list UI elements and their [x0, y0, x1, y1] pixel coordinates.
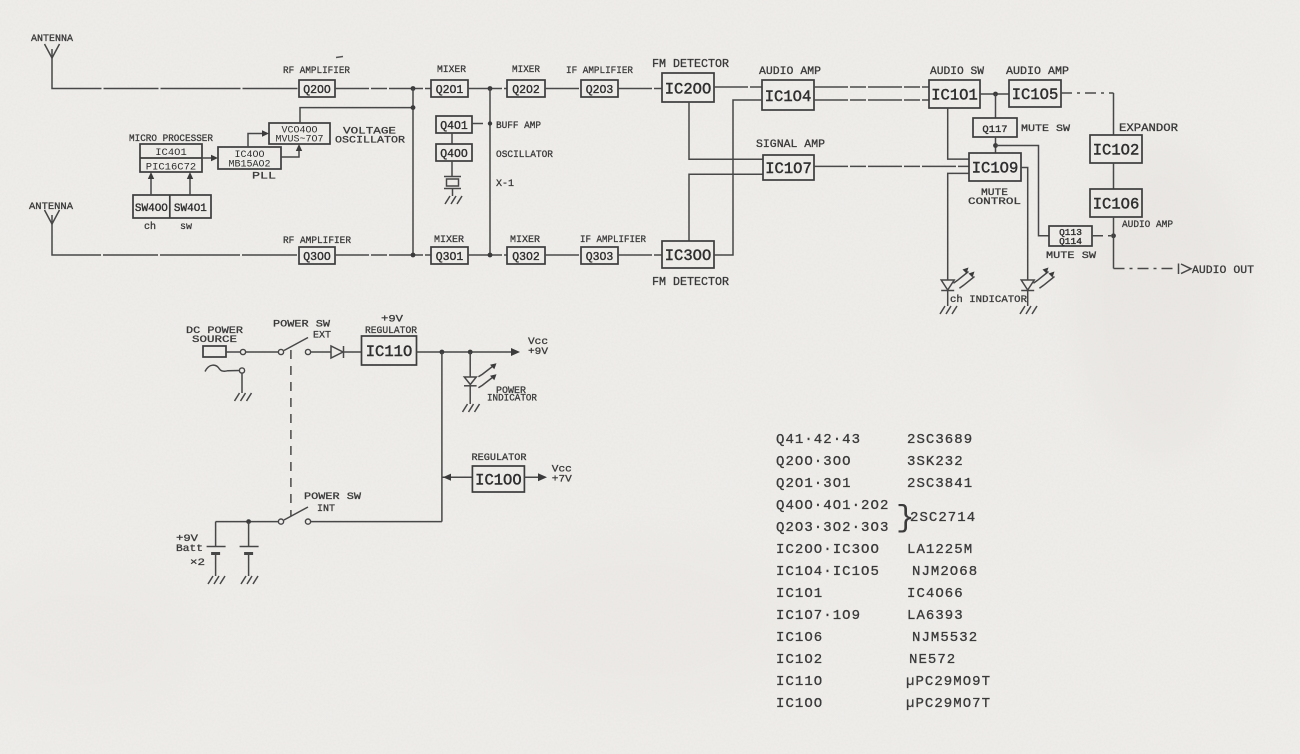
wire IC104 to IC101 upper: [814, 86, 929, 88]
svg-text:EXPANDOR: EXPANDOR: [1119, 123, 1178, 135]
wire Q401 to vertical B: [472, 123, 490, 125]
svg-text:LA1225M: LA1225M: [907, 542, 973, 558]
transistor Q202: [507, 80, 545, 97]
led power indicator: [464, 377, 477, 404]
ground battery 1: [208, 576, 225, 584]
svg-text:AUDIO SW: AUDIO SW: [930, 66, 984, 78]
wire IC101 to IC105: [980, 93, 1009, 95]
wire Q203 to IC200: [618, 88, 662, 90]
ic IC200: [662, 73, 714, 102]
wire SW401 to IC401: [189, 174, 191, 195]
power led arrows: [478, 365, 495, 388]
wire IC107 to IC109: [814, 165, 969, 167]
crystal X-1: [444, 177, 461, 197]
ground below crystal: [445, 196, 462, 204]
node buffer bottom: [488, 253, 493, 258]
wire Q113 to main vertical: [1092, 235, 1114, 237]
wire IC106 down to audio out: [1113, 217, 1115, 269]
ic IC106: [1090, 189, 1142, 217]
svg-text:ANTENNA: ANTENNA: [31, 33, 74, 45]
svg-text:RF AMPLIFIER: RF AMPLIFIER: [283, 65, 351, 77]
terminal circle: [240, 349, 245, 354]
wire VCO400 top to LO vertical: [300, 108, 413, 123]
led1 arrows: [953, 272, 974, 289]
wire plug to terminal: [226, 351, 240, 353]
svg-text:INT: INT: [317, 503, 335, 515]
svg-text:+9V: +9V: [528, 346, 549, 358]
svg-text:Q2O3·3O2·3O3: Q2O3·3O2·3O3: [776, 520, 889, 536]
ic IC101: [929, 80, 980, 108]
svg-text:AUDIO AMP: AUDIO AMP: [1122, 219, 1173, 231]
transistor Q401 buffer: [436, 116, 472, 133]
battery 2: [240, 522, 259, 576]
transistor Q303: [581, 247, 618, 264]
wire Q302 to Q303: [545, 254, 581, 256]
svg-text:IC2OO: IC2OO: [665, 81, 712, 99]
svg-text:IC1O1: IC1O1: [931, 87, 978, 105]
ic IC102 expander: [1090, 135, 1142, 163]
svg-text:µPC29MO9T: µPC29MO9T: [906, 674, 991, 690]
led ch indicator 1: [941, 280, 954, 306]
svg-text:MIXER: MIXER: [510, 234, 541, 246]
wire IC109 right to LED2: [1021, 168, 1028, 281]
svg-text:NJM5532: NJM5532: [912, 630, 978, 646]
svg-text:POWER SW: POWER SW: [304, 491, 362, 503]
wire tee to IC100: [442, 476, 473, 478]
svg-text:SIGNAL AMP: SIGNAL AMP: [756, 139, 825, 151]
svg-text:ch INDICATOR: ch INDICATOR: [950, 294, 1028, 306]
transistor Q302: [507, 247, 545, 264]
svg-text:AUDIO OUT: AUDIO OUT: [1192, 265, 1254, 277]
svg-text:MVUS~7O7: MVUS~7O7: [275, 135, 323, 146]
ic VCO400: [269, 123, 330, 146]
ground power led: [463, 404, 480, 412]
wire buffer vertical B: [489, 89, 491, 256]
wire rail to power led: [469, 352, 471, 377]
svg-text:ANTENNA: ANTENNA: [29, 201, 74, 213]
switch block SW400 SW401: [133, 195, 211, 218]
wire Q400 to crystal: [451, 161, 453, 177]
node audio out vertical tap: [1111, 233, 1116, 238]
transistor Q300: [299, 247, 335, 264]
node buffer feed top: [488, 86, 493, 91]
led ch indicator 2: [1021, 280, 1034, 306]
switch EXT contact: [305, 349, 310, 354]
svg-text:OSCILLATOR: OSCILLATOR: [496, 149, 554, 161]
svg-text:Q3OO: Q3OO: [303, 251, 331, 264]
svg-text:SW4O1: SW4O1: [174, 203, 207, 215]
svg-text:Q3O3: Q3O3: [586, 251, 614, 264]
wire IC400 right to VCO400 bottom: [281, 147, 299, 157]
svg-text:IC11O: IC11O: [776, 674, 823, 690]
wire Q303 to IC300: [618, 254, 662, 256]
node mute tap: [993, 92, 998, 97]
parts list table: [776, 432, 991, 712]
wire IC102 to IC106: [1113, 163, 1115, 189]
svg-text:IC1O4·IC1O5: IC1O4·IC1O5: [776, 564, 880, 580]
wire Q200 to Q201: [335, 88, 431, 90]
svg-text:MIXER: MIXER: [437, 64, 467, 76]
wire sleeve to ground: [241, 373, 243, 393]
wire Q300 to Q301: [335, 254, 431, 256]
transistor Q113 Q114 mute sw: [1049, 226, 1092, 247]
svg-text:NJM2O68: NJM2O68: [912, 564, 978, 580]
svg-text:IC4O66: IC4O66: [907, 586, 964, 602]
svg-text:MIXER: MIXER: [512, 64, 541, 76]
svg-text:2SC2714: 2SC2714: [910, 510, 976, 526]
svg-text:IC1O2: IC1O2: [776, 652, 823, 668]
connector audio out: [1179, 264, 1192, 275]
svg-text:PLL: PLL: [252, 171, 276, 183]
ground led2: [1020, 306, 1037, 314]
svg-text:IC1O7: IC1O7: [765, 160, 812, 178]
battery 1: [207, 522, 226, 576]
svg-text:Q41·42·43: Q41·42·43: [776, 432, 861, 448]
ground led1: [940, 306, 957, 314]
wire battery bus: [216, 521, 279, 523]
svg-text:X-1: X-1: [496, 178, 514, 190]
switch INT contact: [305, 519, 310, 524]
svg-text:×2: ×2: [190, 557, 205, 569]
svg-text:IC1O2: IC1O2: [1093, 142, 1140, 160]
node rail tap 2: [468, 350, 473, 355]
wire tap to mute sw column: [996, 146, 1050, 236]
svg-text:INDICATOR: INDICATOR: [487, 393, 538, 405]
ic IC110 regulator: [362, 336, 417, 365]
wire Q117 top: [995, 94, 997, 118]
dashed mechanical link: [290, 350, 292, 516]
sleeve terminal: [239, 368, 244, 373]
svg-text:+9V: +9V: [381, 314, 404, 326]
svg-text:Q2OO·3OO: Q2OO·3OO: [776, 454, 852, 470]
ic IC105: [1009, 80, 1061, 107]
svg-text:SOURCE: SOURCE: [192, 334, 237, 346]
switch INT lever: [284, 507, 308, 520]
arrow Vcc +7V: [538, 473, 547, 481]
svg-text:FM DETECTOR: FM DETECTOR: [652, 58, 729, 71]
transistor Q201: [431, 80, 468, 97]
svg-text:Q4O1: Q4O1: [440, 120, 468, 133]
svg-text:Q2O1·3O1: Q2O1·3O1: [776, 476, 852, 492]
node LO junction: [411, 105, 416, 110]
ic IC401 microprocessor: [140, 144, 202, 174]
ic IC104: [762, 80, 814, 110]
diode D: [331, 346, 344, 358]
wire switch to diode: [311, 351, 331, 353]
ground dc source: [235, 393, 252, 401]
arrow into rail: [443, 474, 451, 481]
svg-text:IC4O1: IC4O1: [155, 147, 187, 159]
wire IC100 output: [524, 476, 542, 478]
wire IC300 top to IC107 lower input: [689, 174, 763, 241]
svg-text:2SC3841: 2SC3841: [907, 476, 973, 492]
svg-text:LA6393: LA6393: [907, 608, 964, 624]
svg-text:AUDIO AMP: AUDIO AMP: [1006, 66, 1069, 78]
wire IC401 to IC400: [202, 157, 216, 159]
node LO feed top: [411, 86, 416, 91]
svg-text:3SK232: 3SK232: [907, 454, 964, 470]
svg-text:EXT: EXT: [313, 330, 331, 342]
ic IC109: [969, 153, 1021, 181]
svg-text:NE572: NE572: [909, 652, 956, 668]
svg-text:IC1O7·1O9: IC1O7·1O9: [776, 608, 861, 624]
ground battery 2: [241, 576, 258, 584]
antenna 2 symbol: [45, 210, 60, 224]
svg-text:Q3O2: Q3O2: [512, 251, 540, 264]
wire IC104 to IC101 lower: [814, 99, 929, 101]
node rail tap 1: [440, 350, 445, 355]
switch EXT pole: [278, 349, 283, 354]
ic IC400 PLL: [218, 147, 281, 171]
wire IC110 output rail: [417, 351, 516, 353]
node mute control tap: [993, 143, 998, 148]
svg-text:Q2O3: Q2O3: [586, 84, 614, 97]
svg-text:Q117: Q117: [982, 124, 1007, 136]
switch EXT lever: [284, 338, 308, 351]
switch INT pole: [278, 519, 283, 524]
ic IC300: [662, 241, 714, 268]
svg-text:IF AMPLIFIER: IF AMPLIFIER: [566, 65, 634, 77]
transistor Q301: [431, 247, 468, 264]
svg-text:AUDIO AMP: AUDIO AMP: [759, 66, 821, 78]
stray scan mark: [336, 57, 343, 58]
dc source sleeve squiggle: [205, 365, 239, 371]
svg-text:2SC3689: 2SC3689: [907, 432, 973, 448]
wire Q301 to Q302: [468, 254, 507, 256]
ic IC100 regulator: [472, 466, 524, 492]
svg-text:IC1O1: IC1O1: [776, 586, 823, 602]
svg-text:FM DETECTOR: FM DETECTOR: [652, 276, 729, 289]
wire expander vertical top: [1113, 93, 1115, 135]
svg-text:IC1O6: IC1O6: [776, 630, 823, 646]
wire antenna1 to Q200: [52, 58, 299, 89]
svg-text:MUTE SW: MUTE SW: [1046, 250, 1097, 262]
wire audio out horizontal: [1114, 268, 1177, 270]
svg-text:IC1OO: IC1OO: [475, 472, 522, 490]
wire IC200 to IC104: [714, 86, 762, 88]
dc plug: [203, 346, 226, 357]
led2 arrows: [1033, 272, 1054, 289]
arrow into IC400: [211, 155, 218, 161]
svg-text:Q3O1: Q3O1: [436, 251, 464, 264]
svg-text:Q4OO: Q4OO: [440, 148, 468, 161]
svg-text:Q114: Q114: [1059, 236, 1082, 247]
wire SW400 to IC401: [150, 174, 152, 195]
svg-text:BUFF AMP: BUFF AMP: [496, 120, 541, 132]
wire main vertical rail: [441, 352, 443, 522]
svg-text:IC1O4: IC1O4: [765, 88, 812, 106]
svg-text:IC1O6: IC1O6: [1093, 196, 1140, 214]
wire antenna2 to Q300: [52, 224, 299, 255]
svg-text:IC1OO: IC1OO: [776, 696, 823, 712]
wire IC400 top to VCO400 left: [248, 134, 266, 148]
transistor Q203: [581, 80, 618, 97]
node LO bottom: [411, 253, 416, 258]
svg-text:OSCILLATOR: OSCILLATOR: [335, 135, 406, 147]
svg-text:IC1O9: IC1O9: [972, 160, 1019, 178]
svg-text:sw: sw: [180, 221, 193, 233]
svg-text:CONTROL: CONTROL: [968, 196, 1021, 208]
wire INT switch to rail: [311, 521, 442, 523]
wire IC200 bottom to IC107 upper input: [689, 102, 763, 159]
svg-text:Q2O2: Q2O2: [512, 84, 540, 97]
wire IC105 to expander corner: [1061, 92, 1114, 94]
svg-text:+7V: +7V: [552, 474, 573, 486]
transistor Q200: [299, 80, 335, 97]
wire IC101 bottom to IC109 upper-left input: [948, 108, 969, 159]
wire Q401 to Q400: [451, 133, 453, 144]
transistor Q400 oscillator: [436, 144, 472, 161]
node battery2 tap: [246, 519, 251, 524]
svg-text:RF AMPLIFIER: RF AMPLIFIER: [283, 235, 352, 247]
wire Q202 to Q203: [545, 88, 581, 90]
svg-text:REGULATOR: REGULATOR: [472, 452, 528, 464]
wire LO vertical A: [412, 89, 414, 256]
svg-text:Q2O1: Q2O1: [436, 84, 464, 97]
svg-text:IC3OO: IC3OO: [665, 247, 712, 265]
node Q401 junction: [488, 121, 492, 125]
wire Q201 to Q202: [468, 88, 507, 90]
svg-text:ch: ch: [144, 221, 156, 233]
svg-text:Q2OO: Q2OO: [303, 84, 331, 97]
wire IC300 to IC104 lower input: [714, 100, 762, 255]
svg-text:IF AMPLIFIER: IF AMPLIFIER: [580, 234, 647, 246]
wire IC109 lower-left to ch LED1: [948, 173, 969, 280]
svg-text:Q4OO·4O1·2O2: Q4OO·4O1·2O2: [776, 498, 889, 514]
ic IC107: [763, 155, 814, 180]
svg-text:IC2OO·IC3OO: IC2OO·IC3OO: [776, 542, 880, 558]
arrow Vcc +9V: [511, 348, 520, 356]
antenna 1 symbol: [45, 44, 60, 58]
svg-text:PIC16C72: PIC16C72: [146, 162, 196, 174]
svg-text:MUTE SW: MUTE SW: [1021, 123, 1071, 135]
wire terminal to switch: [246, 351, 279, 353]
transistor Q117 mute sw: [973, 118, 1017, 137]
svg-text:MIXER: MIXER: [434, 234, 465, 246]
wire diode to IC110: [344, 351, 362, 353]
svg-text:IC11O: IC11O: [366, 343, 413, 361]
svg-text:Batt: Batt: [176, 543, 203, 555]
svg-text:µPC29MO7T: µPC29MO7T: [906, 696, 991, 712]
svg-text:IC1O5: IC1O5: [1012, 86, 1059, 104]
wire Q117 bottom to IC109: [995, 137, 997, 153]
svg-text:MB15AO2: MB15AO2: [228, 160, 270, 171]
svg-text:SW4OO: SW4OO: [135, 203, 168, 215]
